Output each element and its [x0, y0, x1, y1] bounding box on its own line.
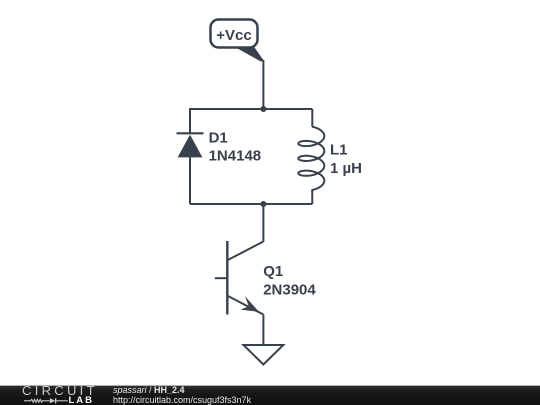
logo resistor zigzag: [24, 399, 50, 402]
Q1 base bar: [226, 241, 228, 315]
Q1 emitter diagonal: [227, 296, 263, 315]
svg-text:1N4148: 1N4148: [209, 148, 262, 165]
svg-text:1 µH: 1 µH: [330, 160, 362, 177]
svg-text:2N3904: 2N3904: [263, 282, 316, 299]
diode D1: [177, 133, 204, 157]
wire emitter to ground: [262, 315, 264, 346]
node top junction: [260, 106, 266, 112]
D1 triangle: [178, 135, 203, 158]
inductor L1 coil: [298, 109, 324, 204]
ground symbol: [244, 345, 284, 365]
power flag +Vcc: [211, 20, 265, 62]
+Vcc rounded box: [211, 20, 258, 48]
logo squiggle and LAB: [22, 396, 97, 405]
Q1 collector diagonal: [227, 242, 263, 261]
wire left upper: [189, 108, 191, 134]
+Vcc tail: [233, 46, 264, 61]
D1 cathode bar: [177, 132, 204, 134]
node bottom junction: [260, 201, 266, 207]
circuitlab logo: [22, 386, 92, 396]
wire left lower: [189, 157, 191, 204]
svg-text:LAB: LAB: [69, 396, 95, 405]
wire collector vertical: [262, 204, 264, 242]
Q1 base stub: [215, 277, 228, 279]
svg-text:Q1: Q1: [263, 263, 283, 280]
wire from +Vcc to top node: [262, 60, 264, 109]
Q1 emitter arrowhead: [241, 296, 259, 312]
wire bottom rail: [190, 203, 312, 205]
logo diode bar: [55, 398, 57, 403]
svg-text:L1: L1: [330, 141, 348, 158]
footer bar: [0, 385, 540, 405]
logo diode triangle: [50, 398, 55, 403]
logo lead to LAB: [56, 399, 68, 401]
wire top rail: [190, 108, 312, 110]
logo word CIRCUIT: [22, 386, 92, 396]
svg-text:D1: D1: [209, 129, 228, 146]
transistor Q1: [215, 241, 264, 315]
footer credit text: [113, 385, 251, 405]
svg-text:+Vcc: +Vcc: [216, 27, 251, 44]
